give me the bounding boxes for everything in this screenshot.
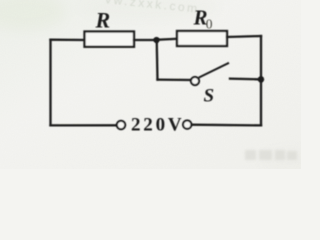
wire R to node A bbox=[134, 39, 157, 41]
wire switch right segment bbox=[230, 77, 261, 80]
switch S pivot circle bbox=[191, 77, 199, 85]
wire left vertical bbox=[49, 40, 51, 126]
paper blotches bbox=[0, 0, 320, 172]
wire top-left rail bbox=[51, 39, 85, 42]
watermark zxxk top bbox=[105, 0, 201, 16]
resistor R0 bbox=[177, 31, 227, 46]
svg-text:R: R bbox=[95, 7, 111, 32]
resistor R bbox=[85, 32, 135, 47]
svg-text:S: S bbox=[204, 85, 215, 106]
paper grain bbox=[0, 0, 301, 169]
wire right vertical bbox=[260, 36, 262, 125]
wire bottom-left rail bbox=[51, 124, 117, 126]
source terminal left bbox=[117, 121, 125, 129]
wire switch stub down from node A bbox=[156, 40, 159, 80]
wire bottom-right rail bbox=[192, 124, 262, 127]
watermark bottom right bbox=[245, 150, 297, 160]
svg-text:220V: 220V bbox=[131, 115, 184, 136]
svg-text:0: 0 bbox=[206, 17, 213, 32]
wire stub to switch bbox=[158, 78, 191, 81]
source terminal right bbox=[183, 120, 191, 128]
wire node A to R0 bbox=[157, 39, 178, 40]
node A junction dot bbox=[153, 37, 159, 43]
wire R0 to top-right corner bbox=[227, 36, 261, 37]
switch S blade bbox=[199, 63, 229, 78]
node B junction dot (switch right) bbox=[258, 76, 264, 82]
